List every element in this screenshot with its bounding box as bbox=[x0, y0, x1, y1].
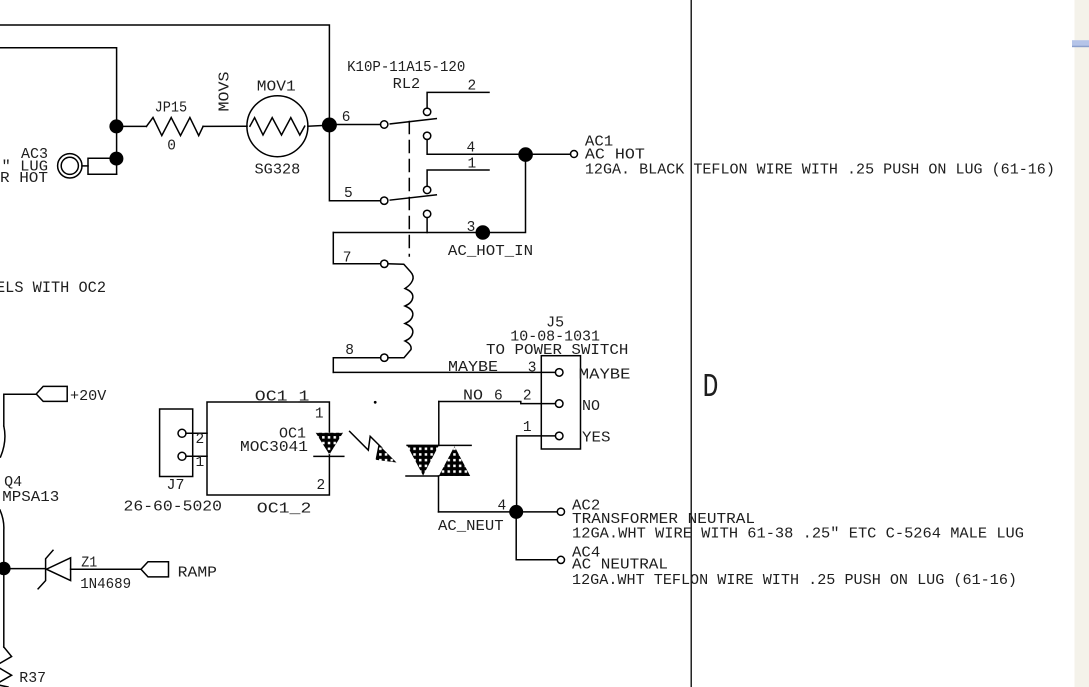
svg-text:R HOT: R HOT bbox=[0, 171, 48, 187]
connector J5 pin 2 circle bbox=[555, 400, 563, 408]
net flag RAMP bbox=[141, 562, 169, 577]
relay RL2 pin 4 contact circle bbox=[423, 132, 430, 139]
relay RL2 armature switch 2 bbox=[390, 195, 436, 200]
svg-text:1N4689: 1N4689 bbox=[80, 577, 131, 593]
connector J7 pin 1 circle bbox=[178, 452, 186, 460]
svg-text:5: 5 bbox=[344, 186, 353, 202]
svg-text:OC1_2: OC1_2 bbox=[257, 502, 312, 518]
scrollbar blue marker bbox=[1072, 40, 1089, 46]
wire top net to relay pin 6 bbox=[0, 25, 329, 121]
wire Q4 emitter down bbox=[0, 510, 4, 647]
relay RL2 pin 5 pole circle bbox=[381, 197, 388, 204]
pin AC2 open terminal circle bbox=[557, 508, 564, 515]
relay coil pin 7 circle bbox=[381, 260, 388, 267]
triac right triangle bbox=[439, 446, 470, 476]
svg-text:26-60-5020: 26-60-5020 bbox=[124, 500, 223, 516]
svg-text:2: 2 bbox=[317, 478, 326, 494]
wire triac MT1 down to AC_NEUT bbox=[438, 476, 440, 512]
svg-text:7: 7 bbox=[343, 251, 352, 267]
connector J7 box bbox=[160, 409, 193, 477]
svg-text:AC NEUTRAL: AC NEUTRAL bbox=[572, 558, 668, 574]
relay coil pin 8 circle bbox=[381, 354, 388, 361]
wire relay pin6 bbox=[329, 124, 380, 126]
connector J5 pin 3 circle bbox=[555, 369, 563, 377]
relay RL2 coil bbox=[388, 264, 413, 358]
opto LED triangle bbox=[316, 433, 343, 455]
wire MOV1 to node bbox=[308, 125, 330, 126]
svg-text:12GA. BLACK TEFLON WIRE WITH .: 12GA. BLACK TEFLON WIRE WITH .25 PUSH ON… bbox=[585, 163, 1055, 179]
wire pin 1 stub bbox=[427, 170, 489, 186]
wire +20V to Q4 collector bbox=[4, 394, 36, 426]
svg-text:4: 4 bbox=[498, 499, 507, 515]
relay RL2 pin 6 pole circle bbox=[381, 121, 388, 128]
wire second top net down to lug junction bbox=[0, 48, 117, 175]
wire YES net J5 pin1 down to AC_NEUT bbox=[517, 436, 556, 512]
varistor MOV1 zigzag bbox=[250, 118, 305, 135]
svg-text:+20V: +20V bbox=[70, 389, 107, 405]
wire pin 3 down bbox=[426, 218, 428, 233]
wire AC_NEUT row bbox=[439, 511, 558, 513]
wire down to coil pin 7 bbox=[333, 233, 380, 264]
pin AC4 open terminal circle bbox=[557, 556, 564, 563]
lug box AC3 bbox=[88, 158, 117, 174]
svg-text:AC_HOT_IN: AC_HOT_IN bbox=[448, 244, 533, 260]
transistor Q4 circle edge bbox=[1, 426, 5, 457]
node junction dot AC_NEUT bbox=[509, 505, 523, 519]
wire lug stub bbox=[82, 165, 88, 167]
wire J7 pin1 to OC1 bbox=[186, 455, 207, 457]
svg-text:12GA.WHT TEFLON WIRE WITH .25: 12GA.WHT TEFLON WIRE WITH .25 PUSH ON LU… bbox=[572, 573, 1017, 589]
wire JP15 to MOV1 bbox=[203, 125, 247, 127]
svg-text:8: 8 bbox=[345, 343, 354, 359]
triac left triangle bbox=[407, 445, 439, 475]
svg-text:AC HOT: AC HOT bbox=[585, 148, 645, 164]
zener Z1 cathode bar and wings bbox=[38, 550, 53, 589]
relay RL2 linkage dashed line bbox=[408, 122, 410, 257]
relay RL2 pin 3 contact circle bbox=[423, 210, 430, 217]
wire pin 4 to AC1 bbox=[427, 140, 570, 155]
triac MT2 bar bbox=[439, 444, 471, 446]
svg-text:6: 6 bbox=[342, 110, 351, 126]
wire zener to RAMP bbox=[71, 568, 141, 570]
svg-text:ELS WITH OC2: ELS WITH OC2 bbox=[0, 279, 106, 297]
connector J5 pin 1 circle bbox=[555, 432, 563, 440]
relay RL2 pin 2 contact circle bbox=[423, 108, 430, 115]
svg-text:YES: YES bbox=[582, 431, 611, 447]
node junction dot relay pin 6 bbox=[322, 118, 337, 133]
scrollbar strip bbox=[1075, 0, 1089, 687]
svg-text:1: 1 bbox=[523, 420, 532, 436]
node junction dot on vertical at JP15 row bbox=[109, 119, 123, 133]
resistor R37 bbox=[0, 647, 12, 687]
svg-text:Z1: Z1 bbox=[81, 556, 97, 572]
wire JP15 left bbox=[116, 125, 146, 127]
wire MOV node down to pin 5 bbox=[329, 129, 380, 201]
svg-text:2: 2 bbox=[196, 432, 205, 448]
border frame line bbox=[690, 0, 692, 687]
power flag +20V bbox=[36, 386, 67, 401]
wire triac MT2 up bbox=[438, 402, 440, 446]
svg-text:J7: J7 bbox=[167, 478, 185, 494]
svg-text:R37: R37 bbox=[19, 671, 46, 687]
pin AC1 open terminal circle bbox=[571, 151, 578, 158]
wire AC_HOT_IN row bbox=[333, 154, 525, 232]
svg-text:K10P-11A15-120: K10P-11A15-120 bbox=[347, 60, 465, 76]
relay RL2 armature switch 1 bbox=[390, 119, 436, 124]
wire J7 pin2 to OC1 bbox=[186, 432, 207, 434]
node junction dot AC1 bbox=[518, 147, 533, 162]
relay RL2 pin 1 contact circle bbox=[423, 186, 430, 193]
optocoupler OC1 box bbox=[207, 402, 329, 495]
svg-text:AC_NEUT: AC_NEUT bbox=[438, 519, 504, 535]
svg-text:NO: NO bbox=[463, 388, 483, 404]
svg-text:Q4: Q4 bbox=[4, 475, 22, 491]
connector J5 box bbox=[541, 356, 580, 449]
wire NO net to J5 pin 2 bbox=[439, 402, 556, 404]
svg-text:2: 2 bbox=[523, 388, 532, 404]
svg-text:6: 6 bbox=[494, 388, 503, 404]
svg-text:1: 1 bbox=[468, 157, 477, 173]
svg-text:RAMP: RAMP bbox=[178, 566, 217, 582]
svg-text:3: 3 bbox=[528, 360, 537, 376]
svg-text:4: 4 bbox=[467, 140, 476, 156]
svg-text:OC1_1: OC1_1 bbox=[255, 390, 310, 406]
resistor JP15 bbox=[146, 118, 203, 136]
svg-text:1: 1 bbox=[196, 455, 205, 471]
triac MT1 bar bbox=[406, 475, 439, 477]
svg-text:SG328: SG328 bbox=[255, 162, 301, 178]
zener Z1 triangle bbox=[46, 558, 70, 581]
svg-text:MAYBE: MAYBE bbox=[448, 360, 498, 376]
svg-text:12GA.WHT WIRE WITH 61-38 .25": 12GA.WHT WIRE WITH 61-38 .25" ETC C-5264… bbox=[572, 526, 1024, 542]
svg-text:3: 3 bbox=[467, 220, 476, 236]
triac left triangle top edge bbox=[407, 444, 439, 446]
node junction dot at lug box corner bbox=[109, 152, 123, 166]
svg-text:NO: NO bbox=[582, 399, 600, 415]
svg-text:TO POWER SWITCH: TO POWER SWITCH bbox=[486, 343, 628, 359]
opto light arrowhead bbox=[376, 444, 397, 462]
wire MAYBE net to J5 pin 3 bbox=[333, 371, 555, 373]
svg-text:1: 1 bbox=[315, 406, 324, 422]
svg-text:MOC3041: MOC3041 bbox=[240, 440, 308, 456]
wire pin 8 row bbox=[333, 358, 380, 373]
stray dot bbox=[374, 401, 377, 404]
wire pin 2 stub bbox=[427, 92, 489, 108]
opto LED cathode bar bbox=[314, 455, 344, 457]
svg-text:JP15: JP15 bbox=[155, 101, 188, 117]
svg-text:RL2: RL2 bbox=[393, 77, 421, 93]
connector J7 pin 2 circle bbox=[178, 429, 186, 437]
svg-text:D: D bbox=[703, 369, 719, 406]
node junction dot AC_HOT_IN bbox=[476, 225, 491, 240]
svg-text:MPSA13: MPSA13 bbox=[2, 490, 59, 506]
svg-text:2: 2 bbox=[468, 78, 477, 94]
wire down to AC4 bbox=[516, 512, 557, 560]
node junction dot zener row bbox=[0, 562, 11, 576]
connector AC3 lug ring bbox=[58, 154, 82, 178]
svg-text:MOV1: MOV1 bbox=[257, 80, 296, 96]
svg-text:MAYBE: MAYBE bbox=[579, 367, 631, 383]
svg-text:MOVS: MOVS bbox=[218, 72, 234, 112]
wire to zener Z1 bbox=[4, 568, 46, 570]
svg-text:0: 0 bbox=[167, 139, 176, 155]
opto light arrow bbox=[350, 431, 382, 450]
varistor MOV1 circle bbox=[247, 96, 308, 157]
